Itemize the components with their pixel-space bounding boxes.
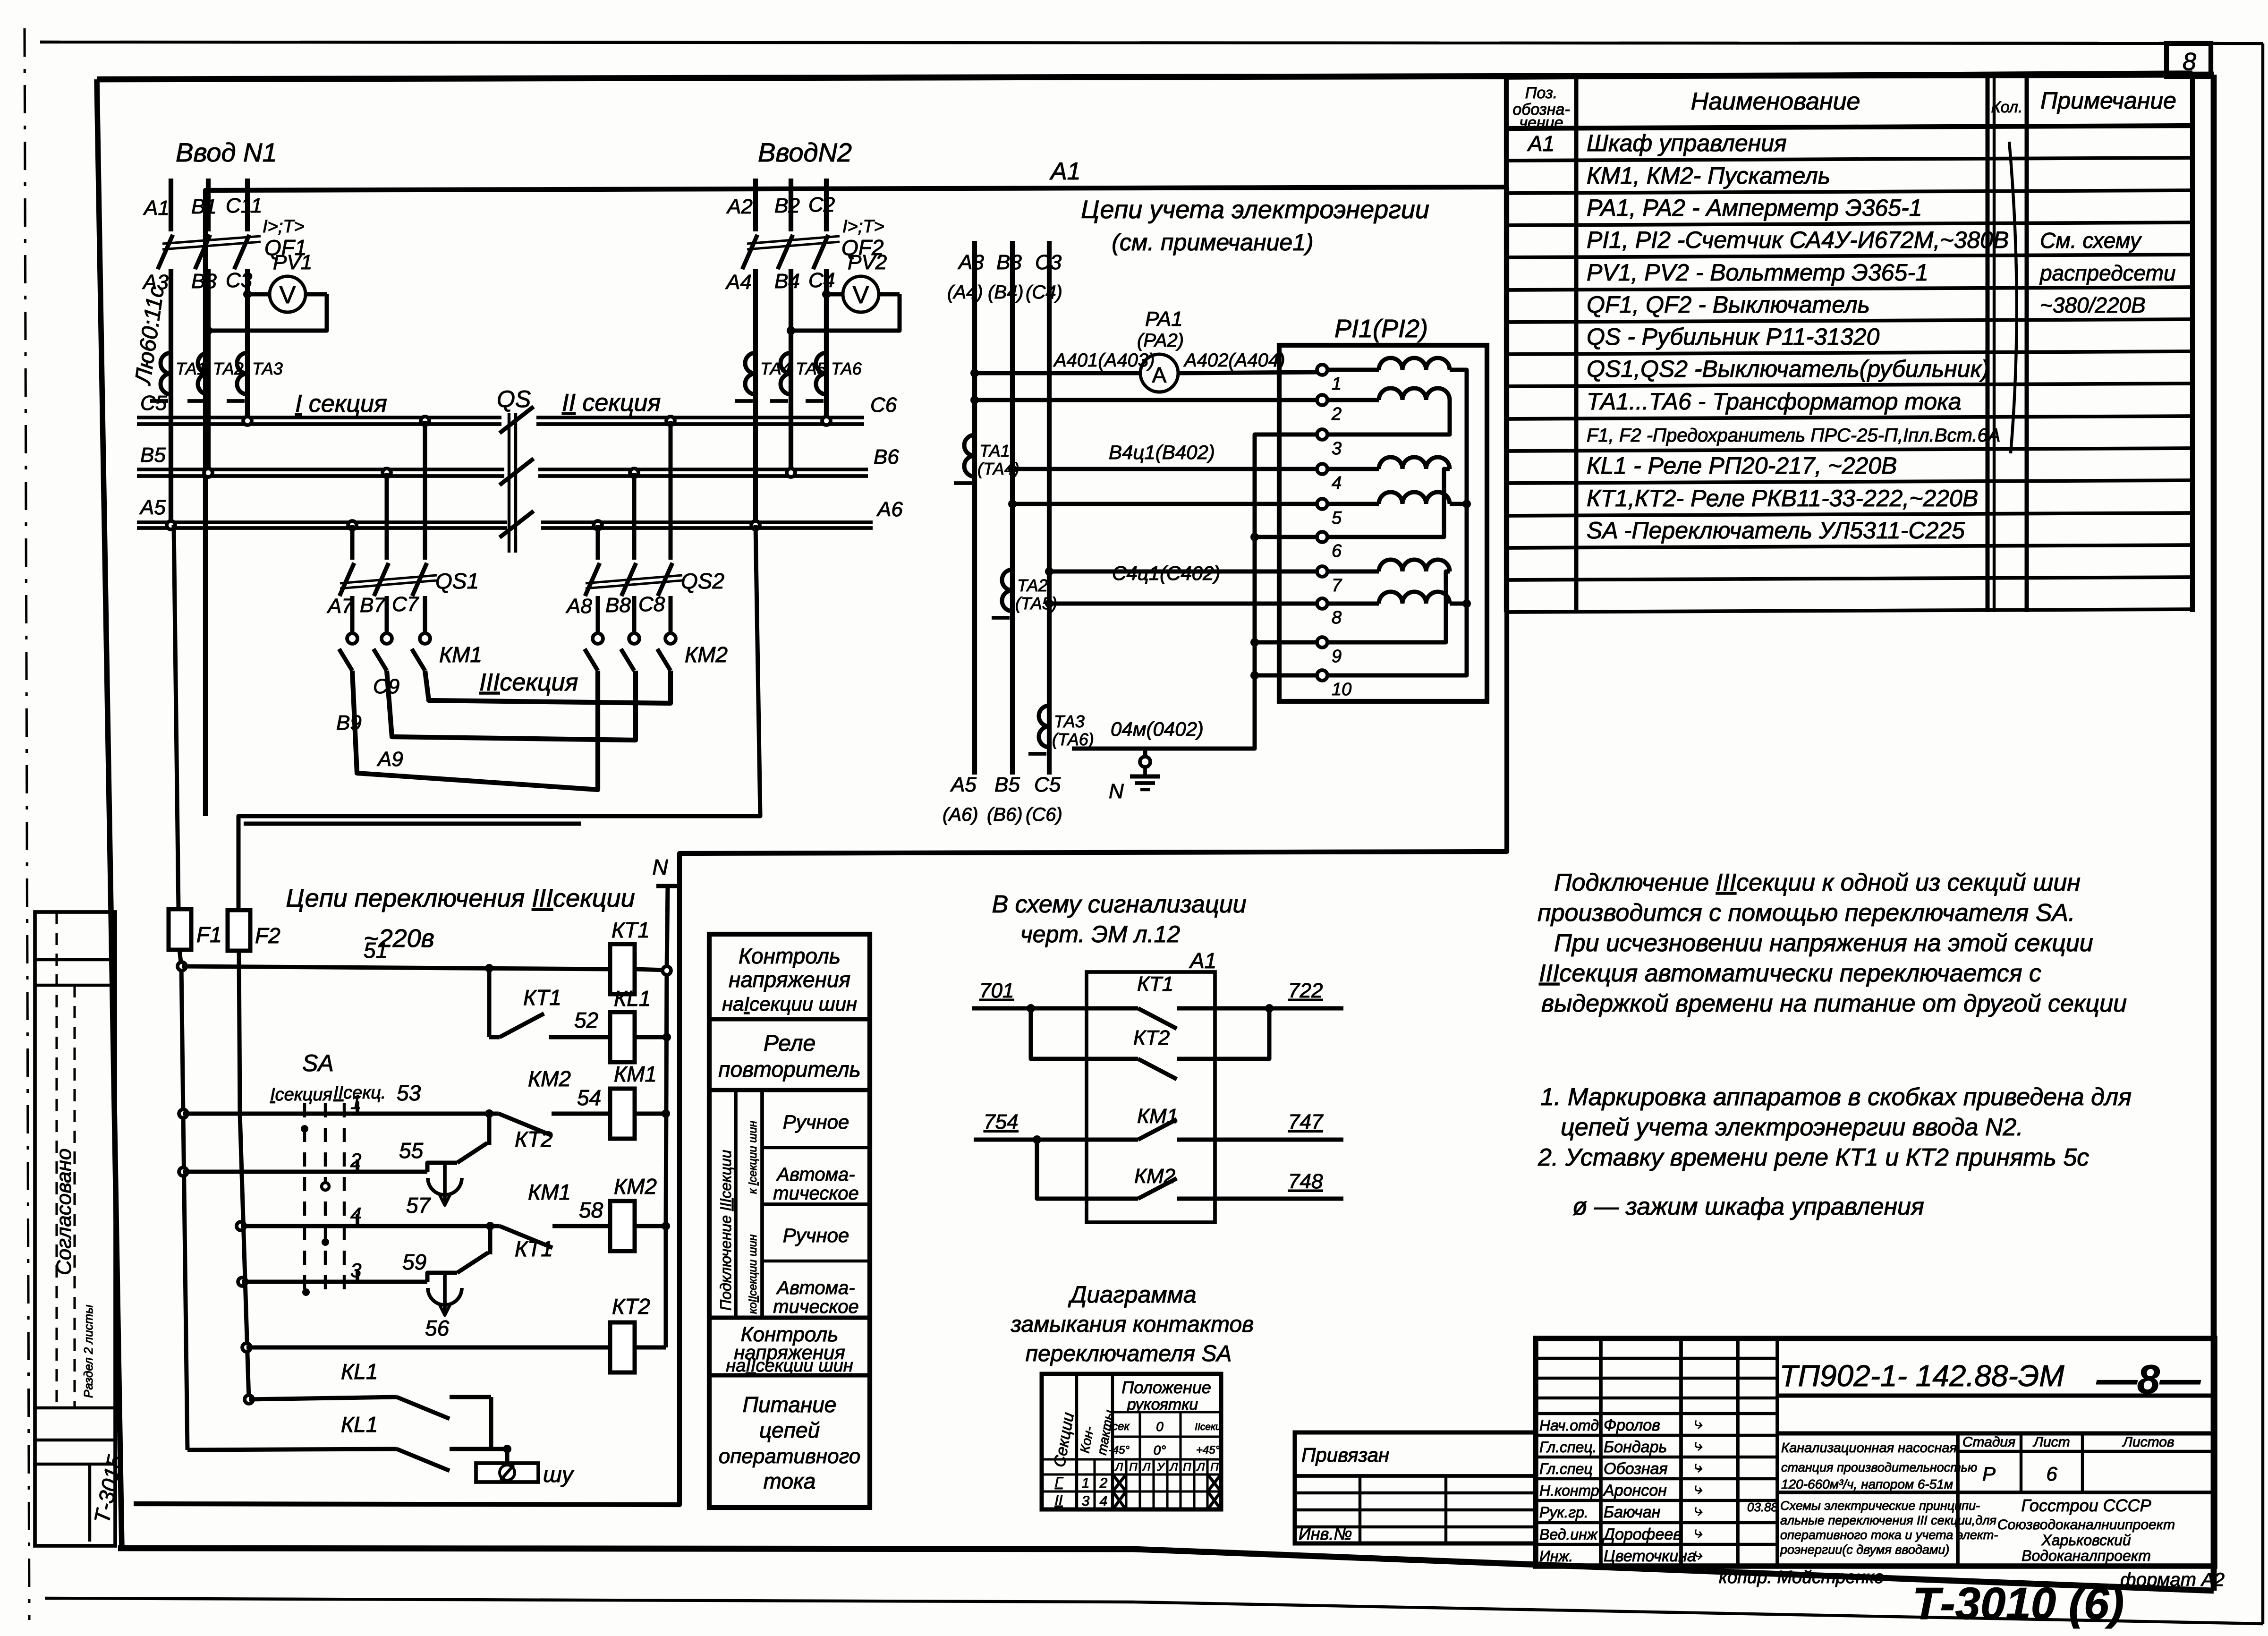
- svg-text:КL1 - Реле РП20-217, ~220В: КL1 - Реле РП20-217, ~220В: [1587, 452, 1897, 479]
- svg-text:7: 7: [1332, 576, 1342, 596]
- svg-text:Питание: Питание: [743, 1392, 837, 1417]
- svg-text:Стадия: Стадия: [1962, 1434, 2015, 1450]
- svg-text:А6: А6: [876, 498, 903, 521]
- SA contact table: [1042, 1374, 1221, 1509]
- svg-text:наIIсекции шин: наIIсекции шин: [726, 1356, 853, 1376]
- svg-text:59: 59: [402, 1250, 426, 1274]
- svg-text:II: II: [1055, 1492, 1063, 1508]
- wire phase C3 N1: [245, 269, 250, 420]
- junction phase B1->B5: [204, 469, 212, 477]
- svg-text:Водоканалпроект: Водоканалпроект: [2022, 1547, 2151, 1564]
- привязан block: [1295, 1432, 1536, 1543]
- svg-text:А1: А1: [143, 196, 170, 220]
- svg-text:В схему сигнализации: В схему сигнализации: [992, 891, 1246, 918]
- transformer TA1: [161, 353, 171, 374]
- svg-text:2: 2: [1331, 404, 1342, 424]
- svg-text:0°: 0°: [1154, 1443, 1166, 1457]
- svg-text:Согласовано: Согласовано: [52, 1149, 76, 1275]
- svg-text:Iсекция: Iсекция: [270, 1085, 332, 1105]
- svg-text:ТА3: ТА3: [1054, 712, 1085, 731]
- svg-text:6: 6: [1332, 541, 1342, 561]
- contact KT1 (52): [487, 968, 492, 1037]
- svg-text:рукоятки: рукоятки: [1127, 1396, 1198, 1414]
- svg-text:II секция: II секция: [562, 389, 661, 417]
- disconnector QS2: [594, 521, 602, 529]
- svg-text:—8—: —8—: [2096, 1357, 2201, 1402]
- meter PI1 coils: [1379, 358, 1402, 370]
- bus A6 section II: [541, 520, 873, 524]
- svg-text:Схемы электрические принципи-: Схемы электрические принципи-: [1780, 1499, 1980, 1513]
- svg-text:10: 10: [1332, 680, 1351, 699]
- svg-text:наIсекции шин: наIсекции шин: [722, 993, 857, 1015]
- fuse F2: [228, 910, 250, 951]
- svg-text:КМ1: КМ1: [439, 642, 482, 667]
- wire phase B3 N1: [206, 269, 211, 472]
- svg-text:Наименование: Наименование: [1691, 88, 1860, 115]
- svg-text:А4: А4: [725, 271, 752, 294]
- svg-text:Баючан: Баючан: [1604, 1503, 1661, 1521]
- svg-text:оперативного тока и учета элек: оперативного тока и учета элект-: [1780, 1528, 1998, 1542]
- junction phase B2->B6: [787, 469, 795, 477]
- svg-text:выдержкой времени на питан: выдержкой времени на питание от другой с…: [1541, 990, 2127, 1017]
- title block project name: [1777, 1491, 2215, 1494]
- title block sheet info: [2020, 1433, 2022, 1492]
- svg-text:Канализационная насосная: Канализационная насосная: [1781, 1440, 1957, 1456]
- svg-text:F1, F2 -Предохранитель ПРС-25-: F1, F2 -Предохранитель ПРС-25-П,Iпл.Вст.…: [1587, 425, 2000, 446]
- svg-text:F1: F1: [196, 922, 222, 947]
- contactor KM1 main contacts: [350, 596, 355, 633]
- svg-text:У: У: [1156, 1461, 1165, 1474]
- title block doc number: [1777, 1394, 2215, 1398]
- svg-text:П: П: [1210, 1461, 1219, 1474]
- svg-text:Кол.: Кол.: [1991, 98, 2023, 116]
- wire metering phase 2: [1010, 241, 1015, 775]
- svg-text:С2: С2: [808, 193, 835, 216]
- svg-text:I секция: I секция: [295, 390, 387, 418]
- wire V2 lower: [240, 1114, 249, 1399]
- svg-text:А: А: [1152, 363, 1167, 387]
- transformer TA2: [198, 353, 208, 374]
- svg-text:Л: Л: [1114, 1461, 1123, 1474]
- svg-text:См. схему: См. схему: [2040, 228, 2142, 253]
- svg-text:А1: А1: [1527, 131, 1554, 156]
- svg-text:Аронсон: Аронсон: [1603, 1482, 1667, 1500]
- svg-text:А402(А404): А402(А404): [1183, 350, 1285, 371]
- wire 56: [242, 1343, 251, 1352]
- svg-text:ТА2: ТА2: [1017, 576, 1048, 595]
- bus B6 section II: [538, 468, 868, 471]
- svg-text:тока: тока: [764, 1469, 816, 1493]
- sheet left dash-dot trim line: [25, 28, 29, 1620]
- transformer TA6: [816, 353, 826, 374]
- svg-text:701: 701: [979, 979, 1014, 1002]
- svg-text:шу: шу: [543, 1462, 575, 1487]
- svg-text:+45°: +45°: [1196, 1444, 1220, 1457]
- svg-text:РА1, РА2 - Амперметр Э365-1: РА1, РА2 - Амперметр Э365-1: [1587, 195, 1922, 221]
- wire B9: [387, 671, 636, 740]
- sheet bottom edge line: [45, 1598, 2263, 1624]
- svg-text:4: 4: [350, 1203, 361, 1226]
- svg-text:тическое: тическое: [773, 1296, 858, 1317]
- svg-text:5: 5: [1332, 508, 1342, 528]
- svg-text:3: 3: [1082, 1493, 1090, 1509]
- svg-text:Шкаф управления: Шкаф управления: [1587, 130, 1787, 156]
- svg-text:С4: С4: [808, 269, 835, 292]
- junction phase C2->C6: [822, 417, 831, 425]
- svg-text:⤷: ⤷: [1693, 1458, 1702, 1476]
- sheet top edge line: [40, 42, 2263, 43]
- svg-text:9: 9: [1332, 647, 1342, 666]
- svg-text:QS1: QS1: [435, 569, 479, 593]
- svg-text:(В4): (В4): [988, 282, 1024, 303]
- frame border top: [97, 75, 2214, 79]
- svg-text:722: 722: [1288, 979, 1323, 1002]
- svg-text:Дорофеев: Дорофеев: [1602, 1525, 1682, 1543]
- svg-text:КL1: КL1: [614, 986, 651, 1011]
- svg-text:П: П: [1129, 1461, 1138, 1474]
- transformer TA5: [781, 353, 791, 374]
- svg-text:Харьковский: Харьковский: [2041, 1532, 2131, 1549]
- svg-text:РV2: РV2: [848, 251, 887, 274]
- svg-text:58: 58: [579, 1198, 603, 1222]
- wire A6 feed to fuse F2: [238, 525, 760, 909]
- svg-text:QF1, QF2 - Выключатель: QF1, QF2 - Выключатель: [1587, 291, 1870, 318]
- svg-text:120-660м³/ч, напором 6-51м: 120-660м³/ч, напором 6-51м: [1781, 1477, 1953, 1491]
- svg-text:Т-3010 (6): Т-3010 (6): [1912, 1578, 2124, 1629]
- svg-text:Автома-: Автома-: [776, 1164, 855, 1185]
- wire phase C1 input N1: [245, 179, 250, 231]
- svg-text:SA: SA: [302, 1050, 334, 1076]
- meter PI1 terminals 1-10: [1317, 365, 1327, 375]
- svg-text:копир. Мойстренко: копир. Мойстренко: [1719, 1568, 1884, 1587]
- brace in Кол column: [2009, 142, 2017, 453]
- svg-text:КМ1: КМ1: [528, 1180, 571, 1204]
- svg-text:В8: В8: [605, 594, 631, 617]
- svg-text:С7: С7: [392, 593, 419, 616]
- svg-text:Ручное: Ручное: [783, 1111, 849, 1133]
- svg-text:При исчезновении напряжени: При исчезновении напряжения на этой секц…: [1554, 929, 2093, 957]
- transformer TA4: [745, 353, 756, 374]
- svg-text:А9: А9: [376, 748, 403, 771]
- terminal ШУ: [476, 1463, 538, 1482]
- svg-text:Фролов: Фролов: [1604, 1416, 1660, 1434]
- svg-text:С5: С5: [140, 392, 167, 415]
- svg-text:Инв.№: Инв.№: [1299, 1524, 1352, 1543]
- svg-text:В3: В3: [191, 270, 217, 293]
- wire phase B2 input N2: [789, 179, 793, 231]
- svg-text:Iсек: Iсек: [1109, 1420, 1130, 1433]
- svg-text:Рук.гр.: Рук.гр.: [1539, 1504, 1588, 1521]
- svg-text:РА1: РА1: [1145, 307, 1183, 331]
- svg-text:Раздел 2 листы: Раздел 2 листы: [81, 1305, 95, 1398]
- svg-text:РI1, РI2 -Счетчик СА4У-И672М,~: РI1, РI2 -Счетчик СА4У-И672М,~380В: [1587, 227, 2009, 253]
- bus C5 section I: [137, 416, 501, 419]
- svg-text:А7: А7: [326, 595, 354, 618]
- sheet number box "8": [2166, 43, 2211, 77]
- lower-left box top edge: [244, 822, 581, 826]
- svg-text:1. Маркировка аппаратов в с: 1. Маркировка аппаратов в скобках привед…: [1540, 1083, 2132, 1111]
- svg-text:55: 55: [399, 1138, 424, 1163]
- svg-text:роэнергии(с двумя вводами): роэнергии(с двумя вводами): [1780, 1542, 1949, 1557]
- svg-text:⤷: ⤷: [1693, 1436, 1702, 1454]
- svg-text:Обозная: Обозная: [1604, 1460, 1668, 1478]
- svg-text:(С4): (С4): [1026, 282, 1062, 303]
- title block outer: [1536, 1338, 2215, 1566]
- svg-text:Автома-: Автома-: [776, 1278, 855, 1298]
- svg-text:переключателя SA: переключателя SA: [1026, 1341, 1232, 1366]
- svg-text:КТ1,КТ2- Реле РКВ11-33-222,~2: КТ1,КТ2- Реле РКВ11-33-222,~220В: [1587, 485, 1978, 511]
- svg-text:распредсети: распредсети: [2039, 261, 2176, 285]
- svg-text:1: 1: [1332, 374, 1342, 394]
- bus A5 section I: [137, 520, 507, 524]
- wire 55: [179, 1167, 187, 1176]
- svg-text:2: 2: [350, 1149, 361, 1171]
- svg-text:IIIсекция автоматически п: IIIсекция автоматически переключается с: [1539, 960, 2041, 987]
- wire A5 feed to fuse F1: [174, 525, 178, 909]
- svg-text:КТ2: КТ2: [1133, 1026, 1170, 1049]
- wire phase B4 N2: [789, 269, 793, 472]
- ground symbol N: [1143, 749, 1147, 757]
- junction phase A1->A5: [167, 521, 175, 529]
- svg-text:КТ1: КТ1: [523, 985, 561, 1010]
- contactor KM2 main contacts: [596, 596, 600, 633]
- svg-text:8: 8: [1332, 608, 1342, 628]
- fuse F1: [169, 909, 191, 950]
- svg-text:3: 3: [350, 1259, 361, 1281]
- svg-text:ТА1: ТА1: [979, 441, 1010, 460]
- svg-text:54: 54: [577, 1085, 601, 1110]
- svg-text:В5: В5: [140, 443, 166, 467]
- svg-text:(ТА6): (ТА6): [1052, 730, 1094, 749]
- svg-text:КТ2: КТ2: [515, 1127, 553, 1151]
- svg-text:748: 748: [1288, 1170, 1323, 1193]
- contact KM2 signal: [1037, 1140, 1138, 1199]
- meter PI1 internal links: [1328, 370, 1467, 675]
- svg-text:⤷: ⤷: [1693, 1414, 1702, 1432]
- svg-text:С8: С8: [638, 593, 665, 616]
- svg-text:~380/220В: ~380/220В: [2040, 293, 2146, 317]
- svg-text:Бондарь: Бондарь: [1604, 1438, 1667, 1456]
- svg-text:оперативного: оперативного: [719, 1445, 861, 1468]
- svg-text:IIIсекция: IIIсекция: [479, 669, 578, 696]
- svg-text:52: 52: [574, 1008, 598, 1032]
- svg-text:(А6): (А6): [943, 804, 978, 825]
- wire phase A4 N2: [753, 269, 758, 525]
- svg-text:повторитель: повторитель: [718, 1057, 860, 1082]
- svg-text:напряжения: напряжения: [729, 967, 850, 992]
- svg-text:1: 1: [1082, 1475, 1090, 1491]
- svg-text:КМ2: КМ2: [685, 642, 728, 667]
- transformer TA2(TA5) secondary: [1002, 570, 1012, 590]
- svg-text:Л: Л: [1169, 1461, 1178, 1474]
- svg-text:Инж.: Инж.: [1539, 1548, 1573, 1565]
- parts list table: [1506, 73, 2192, 77]
- wire 51: [178, 962, 186, 971]
- wire phase C4 N2: [824, 269, 829, 420]
- transformer TA3(TA6) secondary: [1039, 706, 1049, 726]
- svg-text:Подключение IIIсекции: Подключение IIIсекции: [717, 1150, 734, 1311]
- svg-text:SA -Переключатель УЛ5311-С225: SA -Переключатель УЛ5311-С225: [1587, 517, 1965, 544]
- svg-text:N: N: [652, 855, 668, 879]
- svg-text:Примечание: Примечание: [2040, 87, 2176, 114]
- svg-text:⤷: ⤷: [1693, 1524, 1702, 1542]
- frame border bottom: [118, 1548, 2214, 1591]
- svg-text:Цепи учета электроэнергии: Цепи учета электроэнергии: [1081, 196, 1429, 224]
- svg-text:V: V: [853, 281, 869, 309]
- svg-text:КL1: КL1: [341, 1359, 378, 1384]
- svg-text:ТА6: ТА6: [831, 359, 862, 378]
- svg-text:В9: В9: [336, 711, 362, 734]
- wire metering phase 3: [1047, 241, 1052, 775]
- wire 57: [237, 1222, 245, 1230]
- svg-text:57: 57: [406, 1193, 431, 1218]
- wire C9: [425, 671, 671, 703]
- svg-text:Гл.спец: Гл.спец: [1539, 1460, 1593, 1477]
- svg-text:(В6): (В6): [987, 804, 1023, 825]
- A1 cabinet boundary: [205, 187, 1507, 816]
- wire phase B1 input N1: [206, 179, 211, 231]
- svg-text:⤷: ⤷: [1693, 1501, 1702, 1519]
- svg-text:(см. примечание1): (см. примечание1): [1112, 229, 1313, 256]
- svg-text:Реле: Реле: [764, 1031, 815, 1056]
- svg-text:цепей: цепей: [759, 1418, 820, 1442]
- svg-text:Госстрои СССР: Госстрои СССР: [2021, 1496, 2151, 1515]
- svg-text:53: 53: [397, 1081, 421, 1105]
- svg-text:замыкания контактов: замыкания контактов: [1011, 1312, 1254, 1337]
- svg-text:КМ1, КМ2- Пускатель: КМ1, КМ2- Пускатель: [1587, 162, 1830, 189]
- svg-text:к Iсекции шин: к Iсекции шин: [747, 1121, 759, 1194]
- svg-text:QS - Рубильник Р11-31320: QS - Рубильник Р11-31320: [1587, 324, 1880, 350]
- svg-text:QS: QS: [497, 386, 531, 412]
- svg-text:РV1, РV2 - Вольтметр Э365-1: РV1, РV2 - Вольтметр Э365-1: [1587, 259, 1928, 286]
- svg-text:Диаграмма: Диаграмма: [1068, 1281, 1196, 1308]
- svg-text:ТП902-1- 142.88-ЭМ: ТП902-1- 142.88-ЭМ: [1779, 1359, 2064, 1393]
- svg-text:С3: С3: [226, 269, 253, 292]
- svg-text:4: 4: [1100, 1493, 1108, 1509]
- svg-text:51: 51: [364, 938, 388, 963]
- wire A9: [352, 671, 598, 790]
- svg-text:Листов: Листов: [2122, 1434, 2174, 1450]
- svg-text:6: 6: [2046, 1463, 2057, 1485]
- svg-text:Контроль: Контроль: [739, 944, 841, 968]
- svg-text:станция производительностью: станция производительностью: [1781, 1460, 1977, 1474]
- svg-text:КТ1: КТ1: [612, 918, 650, 942]
- svg-text:А1: А1: [1189, 948, 1216, 973]
- right bus of ladder: [666, 971, 667, 1226]
- svg-text:КМ1: КМ1: [614, 1062, 657, 1086]
- svg-text:В1: В1: [191, 195, 217, 218]
- svg-text:Подключение IIIсекции к од: Подключение IIIсекции к одной из секций …: [1554, 869, 2081, 896]
- svg-text:В6: В6: [874, 445, 899, 469]
- svg-text:КМ1: КМ1: [1137, 1105, 1178, 1128]
- breaker QF2: [742, 235, 757, 269]
- contact KL1 lower: [187, 1449, 397, 1450]
- svg-text:В7: В7: [360, 594, 386, 617]
- wire V1 lower: [181, 966, 187, 1450]
- svg-text:А2: А2: [726, 195, 753, 218]
- svg-text:754: 754: [984, 1110, 1018, 1133]
- svg-text:Цветочкина: Цветочкина: [1604, 1547, 1696, 1565]
- svg-text:Цепи переключения IIIсекции: Цепи переключения IIIсекции: [286, 884, 635, 912]
- svg-text:ТА1...ТА6 - Трансформатор ток: ТА1...ТА6 - Трансформатор тока: [1587, 388, 1962, 415]
- svg-text:Поз.: Поз.: [1525, 84, 1557, 102]
- svg-text:I>;Т>: I>;Т>: [842, 217, 884, 237]
- svg-text:В4: В4: [774, 270, 800, 293]
- svg-text:Гл.спец.: Гл.спец.: [1539, 1439, 1597, 1456]
- svg-text:черт. ЭМ л.12: черт. ЭМ л.12: [1020, 921, 1180, 947]
- disconnector QS1: [348, 521, 357, 529]
- svg-text:цепей учета электроэнергии: цепей учета электроэнергии ввода N2.: [1561, 1114, 2023, 1141]
- svg-text:Лист: Лист: [2032, 1434, 2070, 1450]
- bus B5 section I: [137, 468, 504, 471]
- svg-text:⤷: ⤷: [1693, 1480, 1702, 1498]
- svg-text:П: П: [1183, 1461, 1191, 1474]
- svg-text:КL1: КL1: [341, 1412, 378, 1437]
- svg-text:КТ1: КТ1: [515, 1236, 553, 1261]
- svg-text:А8: А8: [565, 595, 592, 618]
- svg-text:2: 2: [1099, 1475, 1108, 1491]
- wire phase A2 input N2: [753, 179, 758, 231]
- stamp Т-3015 box: [88, 1464, 91, 1542]
- svg-text:Положение: Положение: [1121, 1378, 1211, 1397]
- svg-text:КМ2: КМ2: [528, 1066, 571, 1091]
- svg-text:I>;Т>: I>;Т>: [263, 217, 305, 237]
- svg-text:04м(0402): 04м(0402): [1111, 718, 1204, 740]
- svg-text:3: 3: [1332, 439, 1342, 459]
- svg-text:коIIсекции шин: коIIсекции шин: [747, 1235, 759, 1314]
- svg-text:ТА3: ТА3: [252, 359, 283, 378]
- svg-text:(А4): (А4): [947, 282, 983, 303]
- svg-text:F2: F2: [255, 923, 280, 948]
- svg-text:0: 0: [1156, 1419, 1164, 1434]
- svg-text:Вед.инж: Вед.инж: [1539, 1526, 1598, 1543]
- junction phase A2->A6: [751, 521, 760, 529]
- svg-text:-45°: -45°: [1109, 1444, 1130, 1457]
- svg-text:А3: А3: [957, 251, 984, 274]
- svg-text:2. Уставку времени реле КТ: 2. Уставку времени реле КТ1 и КТ2 принят…: [1537, 1144, 2089, 1171]
- svg-text:747: 747: [1288, 1110, 1324, 1133]
- wire phase A1 input N1: [169, 179, 173, 231]
- svg-text:Н.контр: Н.контр: [1539, 1482, 1599, 1499]
- svg-text:ВводN2: ВводN2: [758, 137, 852, 167]
- svg-text:Ручное: Ручное: [783, 1224, 849, 1246]
- svg-text:производится с помощью пер: производится с помощью переключателя SA.: [1537, 899, 2075, 927]
- svg-text:ø — зажим шкафа управления: ø — зажим шкафа управления: [1572, 1193, 1924, 1220]
- svg-text:альные переключения III секции: альные переключения III секции,для: [1780, 1513, 1996, 1527]
- transformer TA3: [237, 353, 247, 374]
- svg-text:КТ2: КТ2: [612, 1294, 650, 1319]
- frame border left: [97, 79, 122, 1548]
- svg-text:чение: чение: [1519, 114, 1563, 132]
- svg-text:Л: Л: [1196, 1461, 1205, 1474]
- left collector rail of PI1: [1072, 435, 1317, 749]
- svg-text:С11: С11: [226, 194, 262, 217]
- svg-text:Р: Р: [1982, 1463, 1996, 1485]
- svg-text:С6: С6: [870, 393, 897, 417]
- svg-text:Привязан: Привязан: [1301, 1444, 1389, 1466]
- svg-text:РI1(РI2): РI1(РI2): [1334, 315, 1428, 343]
- svg-text:А1: А1: [1049, 158, 1081, 185]
- function table: [709, 934, 870, 1508]
- transformer TA1(TA4) secondary: [964, 435, 975, 456]
- svg-text:формат А2: формат А2: [2120, 1569, 2225, 1590]
- svg-text:КТ1: КТ1: [1137, 972, 1173, 996]
- svg-text:Ввод N1: Ввод N1: [176, 137, 277, 167]
- svg-text:IIсекц: IIсекц: [1195, 1422, 1221, 1432]
- svg-text:QS1,QS2 -Выключатель(рубильник: QS1,QS2 -Выключатель(рубильник): [1587, 356, 1989, 382]
- svg-text:1: 1: [350, 1091, 361, 1113]
- contact KL1 upper: [245, 1395, 253, 1404]
